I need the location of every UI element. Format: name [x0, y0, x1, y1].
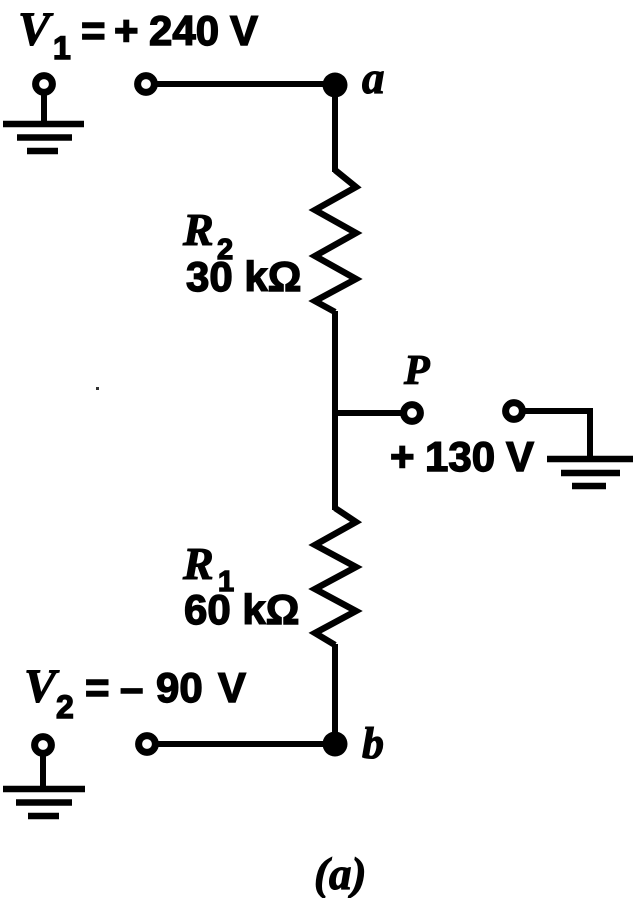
ground (bottom left, V2) [3, 737, 85, 816]
terminal circle (bottom wire, left end) [139, 736, 156, 753]
svg-text:=: = [85, 664, 110, 711]
svg-text:V: V [18, 3, 54, 56]
svg-text:130: 130 [425, 433, 495, 480]
label V1 = +240 V [18, 3, 258, 66]
svg-text:V: V [24, 660, 60, 713]
ground (top left, V1) [3, 76, 84, 151]
svg-text:240: 240 [149, 7, 219, 54]
wire: node a down to R2 [332, 85, 338, 172]
label V2 = -90 V [24, 660, 246, 725]
wire: R2 to junction P and down to R1 [332, 311, 338, 510]
terminal circle (right, to ground) [506, 403, 523, 420]
node P junction wire [335, 410, 401, 416]
wire: R1 down to node b [332, 644, 338, 744]
wire: terminal to node a [156, 81, 335, 87]
terminal circle (top wire, left end) [138, 76, 155, 93]
terminal circle P [404, 405, 421, 422]
svg-text:1: 1 [53, 30, 71, 66]
svg-text:=: = [81, 7, 106, 54]
ground (right of P) [547, 459, 633, 486]
svg-text:V: V [506, 433, 534, 480]
label +130 V [390, 433, 534, 480]
svg-text:b: b [362, 719, 384, 768]
svg-text:30 kΩ: 30 kΩ [186, 253, 301, 300]
svg-text:+: + [114, 7, 139, 54]
svg-text:a: a [362, 53, 385, 103]
svg-text:(a): (a) [314, 849, 366, 898]
svg-text:60 kΩ: 60 kΩ [184, 586, 299, 633]
svg-text:V: V [218, 664, 246, 711]
scan speck [96, 387, 99, 390]
svg-text:90: 90 [156, 664, 203, 711]
svg-text:P: P [403, 348, 430, 394]
node b [323, 732, 348, 757]
wire: node b to bottom terminal [157, 741, 335, 747]
node a [323, 73, 348, 98]
svg-text:+: + [390, 433, 415, 480]
svg-text:V: V [230, 7, 258, 54]
resistor R2 (zigzag) [315, 170, 356, 312]
svg-text:2: 2 [56, 689, 74, 725]
svg-text:R: R [182, 538, 214, 589]
svg-text:–: – [120, 664, 143, 711]
svg-text:R: R [182, 204, 214, 255]
wire: right terminal to ground [524, 411, 590, 456]
resistor R1 (zigzag) [315, 508, 356, 645]
